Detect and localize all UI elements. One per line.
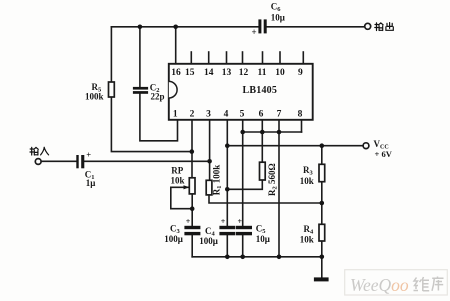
junction dot Vcc rail at pin4 column: [225, 143, 230, 148]
svg-text:11: 11: [258, 68, 267, 78]
potentiometer RP: [189, 178, 195, 194]
wire RP wiper loop: [171, 187, 192, 208]
wire pin3 column: [209, 120, 211, 181]
svg-text:WeeQoo: WeeQoo: [350, 275, 409, 295]
svg-text:10k: 10k: [300, 176, 314, 186]
svg-text:+: +: [221, 217, 226, 226]
svg-text:10k: 10k: [300, 234, 314, 244]
svg-text:+: +: [238, 217, 243, 226]
capacitor C1: [76, 155, 78, 168]
svg-text:LB1405: LB1405: [243, 85, 278, 96]
resistor R1: [206, 180, 212, 195]
resistor R2: [260, 162, 266, 180]
resistor R5: [109, 82, 115, 97]
svg-text:R1 100k: R1 100k: [211, 165, 223, 196]
capacitor C5: [236, 226, 252, 229]
wire R4 bottom to ground: [321, 241, 323, 278]
svg-text:8: 8: [298, 110, 303, 120]
resistor R4: [319, 224, 325, 241]
svg-text:13: 13: [222, 68, 232, 78]
svg-text:100μ: 100μ: [164, 234, 183, 244]
svg-text:15: 15: [185, 68, 195, 78]
wire pin8 stub: [301, 120, 303, 132]
wire pin14 stub: [208, 52, 210, 64]
capacitor C6: [258, 19, 261, 33]
svg-text:3: 3: [206, 110, 211, 120]
wire C4 bottom: [226, 235, 228, 256]
svg-text:1: 1: [173, 110, 178, 120]
wire pins 5-8 bus: [243, 131, 302, 133]
wire C3 bottom: [191, 235, 193, 256]
wire R3 top: [321, 146, 323, 165]
svg-text:10μ: 10μ: [271, 13, 285, 23]
svg-text:C6: C6: [271, 1, 282, 13]
junction dot bus at pin5: [240, 130, 245, 135]
wire pin7 column: [278, 120, 280, 257]
capacitor C3: [184, 226, 200, 229]
svg-text:R2 560Ω: R2 560Ω: [267, 163, 279, 196]
watermark box: [345, 270, 448, 295]
junction dot bottom rail C5: [240, 254, 245, 259]
svg-text:4: 4: [224, 110, 229, 120]
junction dot R3-R4 node: [320, 201, 325, 206]
wire pin10 stub: [279, 52, 281, 64]
resistor R3: [319, 164, 325, 181]
node input label (shu-ru): [30, 147, 49, 155]
junction dot top rail at pin16: [173, 25, 178, 30]
svg-text:RP: RP: [171, 165, 183, 175]
wire Vcc rail: [227, 145, 363, 147]
ground: [314, 277, 329, 281]
wire top rail C6 to output: [267, 26, 365, 28]
svg-text:14: 14: [204, 68, 214, 78]
wire R2 bottom elbow to pin4 column: [227, 180, 262, 189]
wire top rail left of C6: [111, 26, 258, 28]
wire R5 column bottom to pin2: [111, 97, 191, 152]
wire pin16 column: [175, 27, 177, 64]
svg-text:+ 6V: + 6V: [375, 149, 393, 159]
wire input to C1: [41, 160, 76, 162]
wire pin12 stub: [242, 52, 244, 64]
svg-text:+: +: [186, 217, 191, 226]
svg-text:10μ: 10μ: [256, 234, 270, 244]
wire pin11 stub: [262, 52, 264, 64]
svg-text:R3: R3: [303, 165, 314, 177]
wire pin4 column: [226, 120, 228, 226]
junction dot bottom rail ground: [320, 254, 325, 259]
wire R3 bottom to R4 top: [321, 182, 323, 225]
svg-text:22p: 22p: [151, 92, 165, 102]
wire RP column to C3: [191, 194, 193, 226]
svg-text:7: 7: [277, 110, 282, 120]
junction dot bottom rail C4: [225, 254, 230, 259]
svg-text:5: 5: [240, 110, 245, 120]
svg-text:100k: 100k: [85, 92, 104, 102]
junction dot bus at pin7: [277, 130, 282, 135]
junction dot R5 wire at pin2 column: [190, 149, 195, 154]
junction dot bottom rail pin7: [277, 254, 282, 259]
wire pin2 column: [191, 120, 193, 178]
wire pin9 stub: [302, 52, 304, 64]
wire bottom rail: [192, 256, 322, 258]
junction dot top rail at C2: [138, 25, 143, 30]
wire pin13 stub: [226, 52, 228, 64]
svg-text:+: +: [252, 27, 257, 37]
wire pin6 column to R2: [261, 120, 263, 162]
svg-text:12: 12: [239, 68, 249, 78]
junction dot R2 wire at pin4 column: [225, 187, 230, 192]
svg-text:10: 10: [275, 68, 285, 78]
svg-text:16: 16: [171, 68, 181, 78]
svg-text:10k: 10k: [171, 176, 185, 186]
RP wiper arrowhead: [184, 185, 190, 189]
wire C5 bottom: [242, 235, 244, 256]
wire pin15 stub: [190, 52, 192, 64]
op IC U1 LB1405 body: [169, 64, 313, 120]
wire pin5 column: [242, 120, 244, 226]
wire C2 column top: [139, 27, 141, 87]
capacitor C4: [219, 226, 235, 229]
junction dot Vcc rail at R3 column: [320, 143, 325, 148]
junction dot input wire at pin3 column: [207, 159, 212, 164]
wire R1 bottom to R3-R4 node: [209, 195, 322, 203]
IC notch: [169, 81, 177, 98]
junction dot bus at pin6: [260, 130, 265, 135]
watermark wei-ku glyphs: [414, 277, 444, 292]
wire C1 to pin3 column: [84, 160, 209, 162]
svg-text:6: 6: [259, 110, 264, 120]
svg-text:2: 2: [190, 110, 195, 120]
svg-text:100μ: 100μ: [199, 236, 218, 246]
node output label (shu-chu): [375, 23, 394, 31]
svg-text:+: +: [86, 150, 91, 160]
wire R5 column top: [110, 27, 112, 82]
svg-text:9: 9: [298, 68, 303, 78]
junction dot RP loop: [190, 206, 195, 211]
svg-text:1μ: 1μ: [86, 178, 96, 188]
Vcc terminal: [363, 143, 369, 149]
input terminal: [35, 159, 41, 165]
capacitor C2: [133, 87, 148, 90]
output terminal: [365, 23, 371, 29]
wire C2 bottom loop to pin 1: [140, 94, 178, 141]
